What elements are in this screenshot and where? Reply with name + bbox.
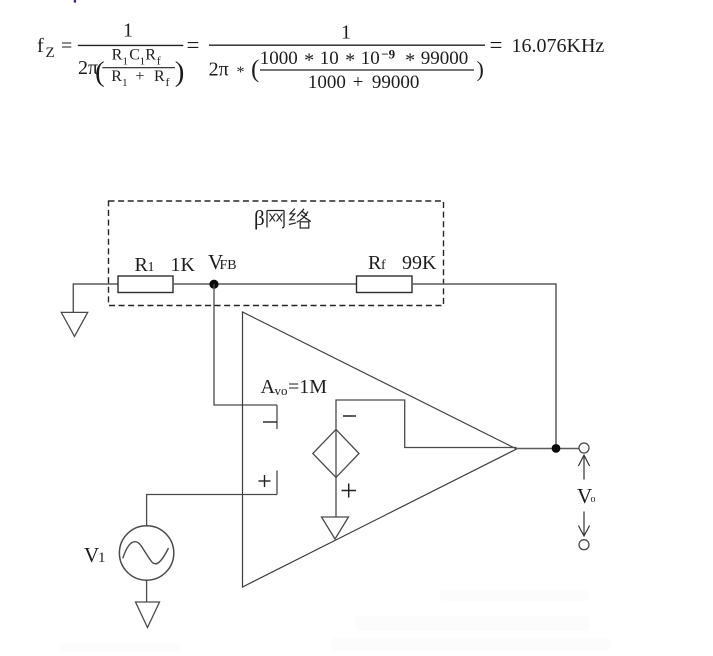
svg-text:10: 10 (361, 48, 380, 69)
formula inner fraction 2 bar (260, 69, 474, 71)
svg-text:f: f (37, 35, 44, 57)
node VFB (209, 280, 218, 289)
svg-text:): ) (175, 56, 185, 88)
svg-text:A: A (261, 376, 276, 398)
svg-text:o: o (591, 494, 596, 505)
svg-text:R: R (111, 68, 122, 85)
svg-text:R: R (154, 68, 165, 85)
svg-text:1: 1 (148, 260, 155, 275)
wire E1 bottom to ground (335, 478, 337, 518)
svg-text:=: = (187, 33, 200, 58)
Vo arrow up (578, 455, 589, 479)
glyph wang 网 (267, 211, 284, 228)
E1 plus sign (342, 484, 357, 498)
formula inner fraction 1 denominator R1+Rf (111, 68, 169, 89)
label V1 (84, 543, 106, 567)
svg-text:1000: 1000 (260, 48, 298, 69)
svg-text:f: f (381, 258, 386, 273)
wire Rf to output node (feedback) (412, 284, 556, 444)
svg-text:1: 1 (123, 56, 129, 68)
dependent source E1 diamond (313, 429, 359, 477)
svg-text:1: 1 (341, 22, 351, 44)
stray cursor tick top edge (74, 0, 76, 3)
inverting input pin tick (276, 405, 278, 429)
formula fraction 2 bar (209, 44, 485, 46)
Vo arrow down (578, 512, 589, 537)
svg-text:*: * (345, 49, 355, 71)
svg-text:Z: Z (46, 45, 55, 61)
inverting input minus sign (263, 421, 277, 423)
formula inner fraction 2 denominator (308, 72, 420, 93)
svg-text:1: 1 (122, 77, 128, 89)
svg-text:R: R (368, 252, 382, 274)
label beta network (254, 206, 311, 230)
svg-text:10: 10 (320, 48, 339, 69)
formula inner fraction 1 numerator R1C1Rf (112, 47, 161, 68)
source V1 circle (119, 526, 173, 580)
svg-text:C: C (129, 47, 140, 64)
glyph luo 络 (289, 209, 311, 229)
svg-text:−9: −9 (381, 46, 395, 61)
label Rf 99K (368, 252, 437, 274)
svg-text:1: 1 (98, 550, 106, 566)
op-amp U1 (243, 312, 517, 587)
svg-text:1000: 1000 (308, 72, 346, 93)
svg-text:2π: 2π (209, 59, 229, 81)
dependent source internal wire (335, 429, 337, 477)
svg-text:R: R (112, 47, 123, 64)
svg-text:(: ( (95, 56, 105, 88)
terminal Vo bottom circle (579, 540, 589, 550)
svg-text:1K: 1K (171, 254, 196, 276)
ground GND V1 (136, 602, 160, 628)
formula result (490, 33, 605, 58)
svg-text:R: R (135, 254, 149, 276)
svg-text:+: + (135, 68, 144, 85)
svg-text:(: ( (251, 56, 259, 83)
svg-text:99000: 99000 (372, 72, 420, 93)
label Vo (577, 484, 596, 508)
svg-text:FB: FB (220, 258, 237, 273)
E1 minus sign (343, 415, 356, 417)
formula inner fraction 2 numerator (260, 46, 469, 71)
label Avo=1M (261, 376, 328, 398)
resistor Rf (357, 276, 413, 293)
formula fraction 1 bar (78, 44, 184, 46)
label VFB (208, 250, 237, 274)
faint erased watermark smudge (60, 590, 610, 652)
svg-text:=: = (61, 35, 72, 57)
svg-text:V: V (84, 543, 99, 567)
wire R1 to Rf (173, 283, 357, 285)
terminal Vo top circle (579, 443, 589, 453)
wire op-amp output to terminal (517, 448, 580, 450)
svg-text:*: * (405, 49, 415, 71)
svg-text:99000: 99000 (421, 48, 469, 69)
svg-text:=1M: =1M (288, 376, 327, 398)
svg-text:β: β (254, 206, 265, 230)
resistor R1 (118, 276, 173, 293)
formula fz lhs (37, 35, 72, 61)
non-inverting input plus sign (259, 475, 271, 487)
beta network dashed box (109, 201, 444, 306)
svg-text:*: * (304, 49, 314, 71)
formula inner fraction 1 bar (102, 67, 175, 69)
wire V1 to non-inverting input (147, 495, 277, 527)
svg-text:*: * (237, 64, 245, 81)
svg-text:99K: 99K (402, 252, 437, 274)
svg-text:=: = (490, 33, 503, 58)
wire E1 top to op-amp output apex (336, 400, 517, 448)
svg-text:vo: vo (275, 383, 288, 398)
svg-text:R: R (145, 47, 156, 64)
source V1 sine (123, 542, 169, 564)
ground GND mid (322, 517, 349, 539)
ground GND left (61, 312, 87, 336)
svg-text:): ) (477, 57, 484, 82)
svg-text:f: f (157, 54, 161, 68)
label R1 1K (135, 254, 196, 276)
svg-text:16.076KHz: 16.076KHz (512, 35, 605, 57)
node output (552, 444, 561, 453)
non-inverting input pin tick (276, 471, 278, 495)
svg-text:+: + (353, 72, 364, 93)
wire left rail to R1 (73, 284, 118, 313)
svg-text:f: f (166, 75, 170, 89)
wire VFB to inverting input (214, 284, 277, 405)
wire V1 to ground (146, 580, 148, 602)
svg-text:1: 1 (123, 20, 133, 42)
